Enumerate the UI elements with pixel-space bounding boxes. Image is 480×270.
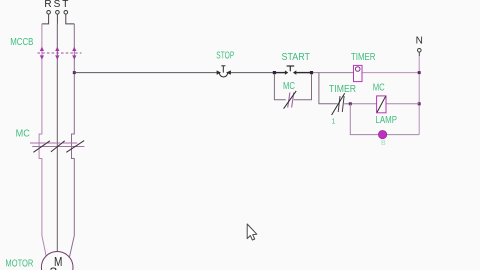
svg-text:1: 1 <box>332 119 336 126</box>
svg-text:T: T <box>62 0 68 10</box>
svg-text:MC: MC <box>373 83 385 94</box>
svg-text:MOTOR: MOTOR <box>5 259 33 270</box>
svg-text:TIMER: TIMER <box>351 52 376 63</box>
svg-text:B: B <box>381 140 386 147</box>
svg-text:N: N <box>416 36 423 47</box>
svg-text:3~: 3~ <box>50 265 66 270</box>
svg-text:MC: MC <box>283 81 295 92</box>
svg-text:R: R <box>44 0 51 10</box>
svg-text:MC: MC <box>16 129 30 140</box>
svg-text:S: S <box>54 0 61 10</box>
svg-text:STOP: STOP <box>216 51 234 62</box>
svg-text:START: START <box>282 52 311 63</box>
svg-text:LAMP: LAMP <box>376 115 398 126</box>
svg-text:MCCB: MCCB <box>10 37 33 48</box>
svg-text:TIMER: TIMER <box>329 84 356 95</box>
